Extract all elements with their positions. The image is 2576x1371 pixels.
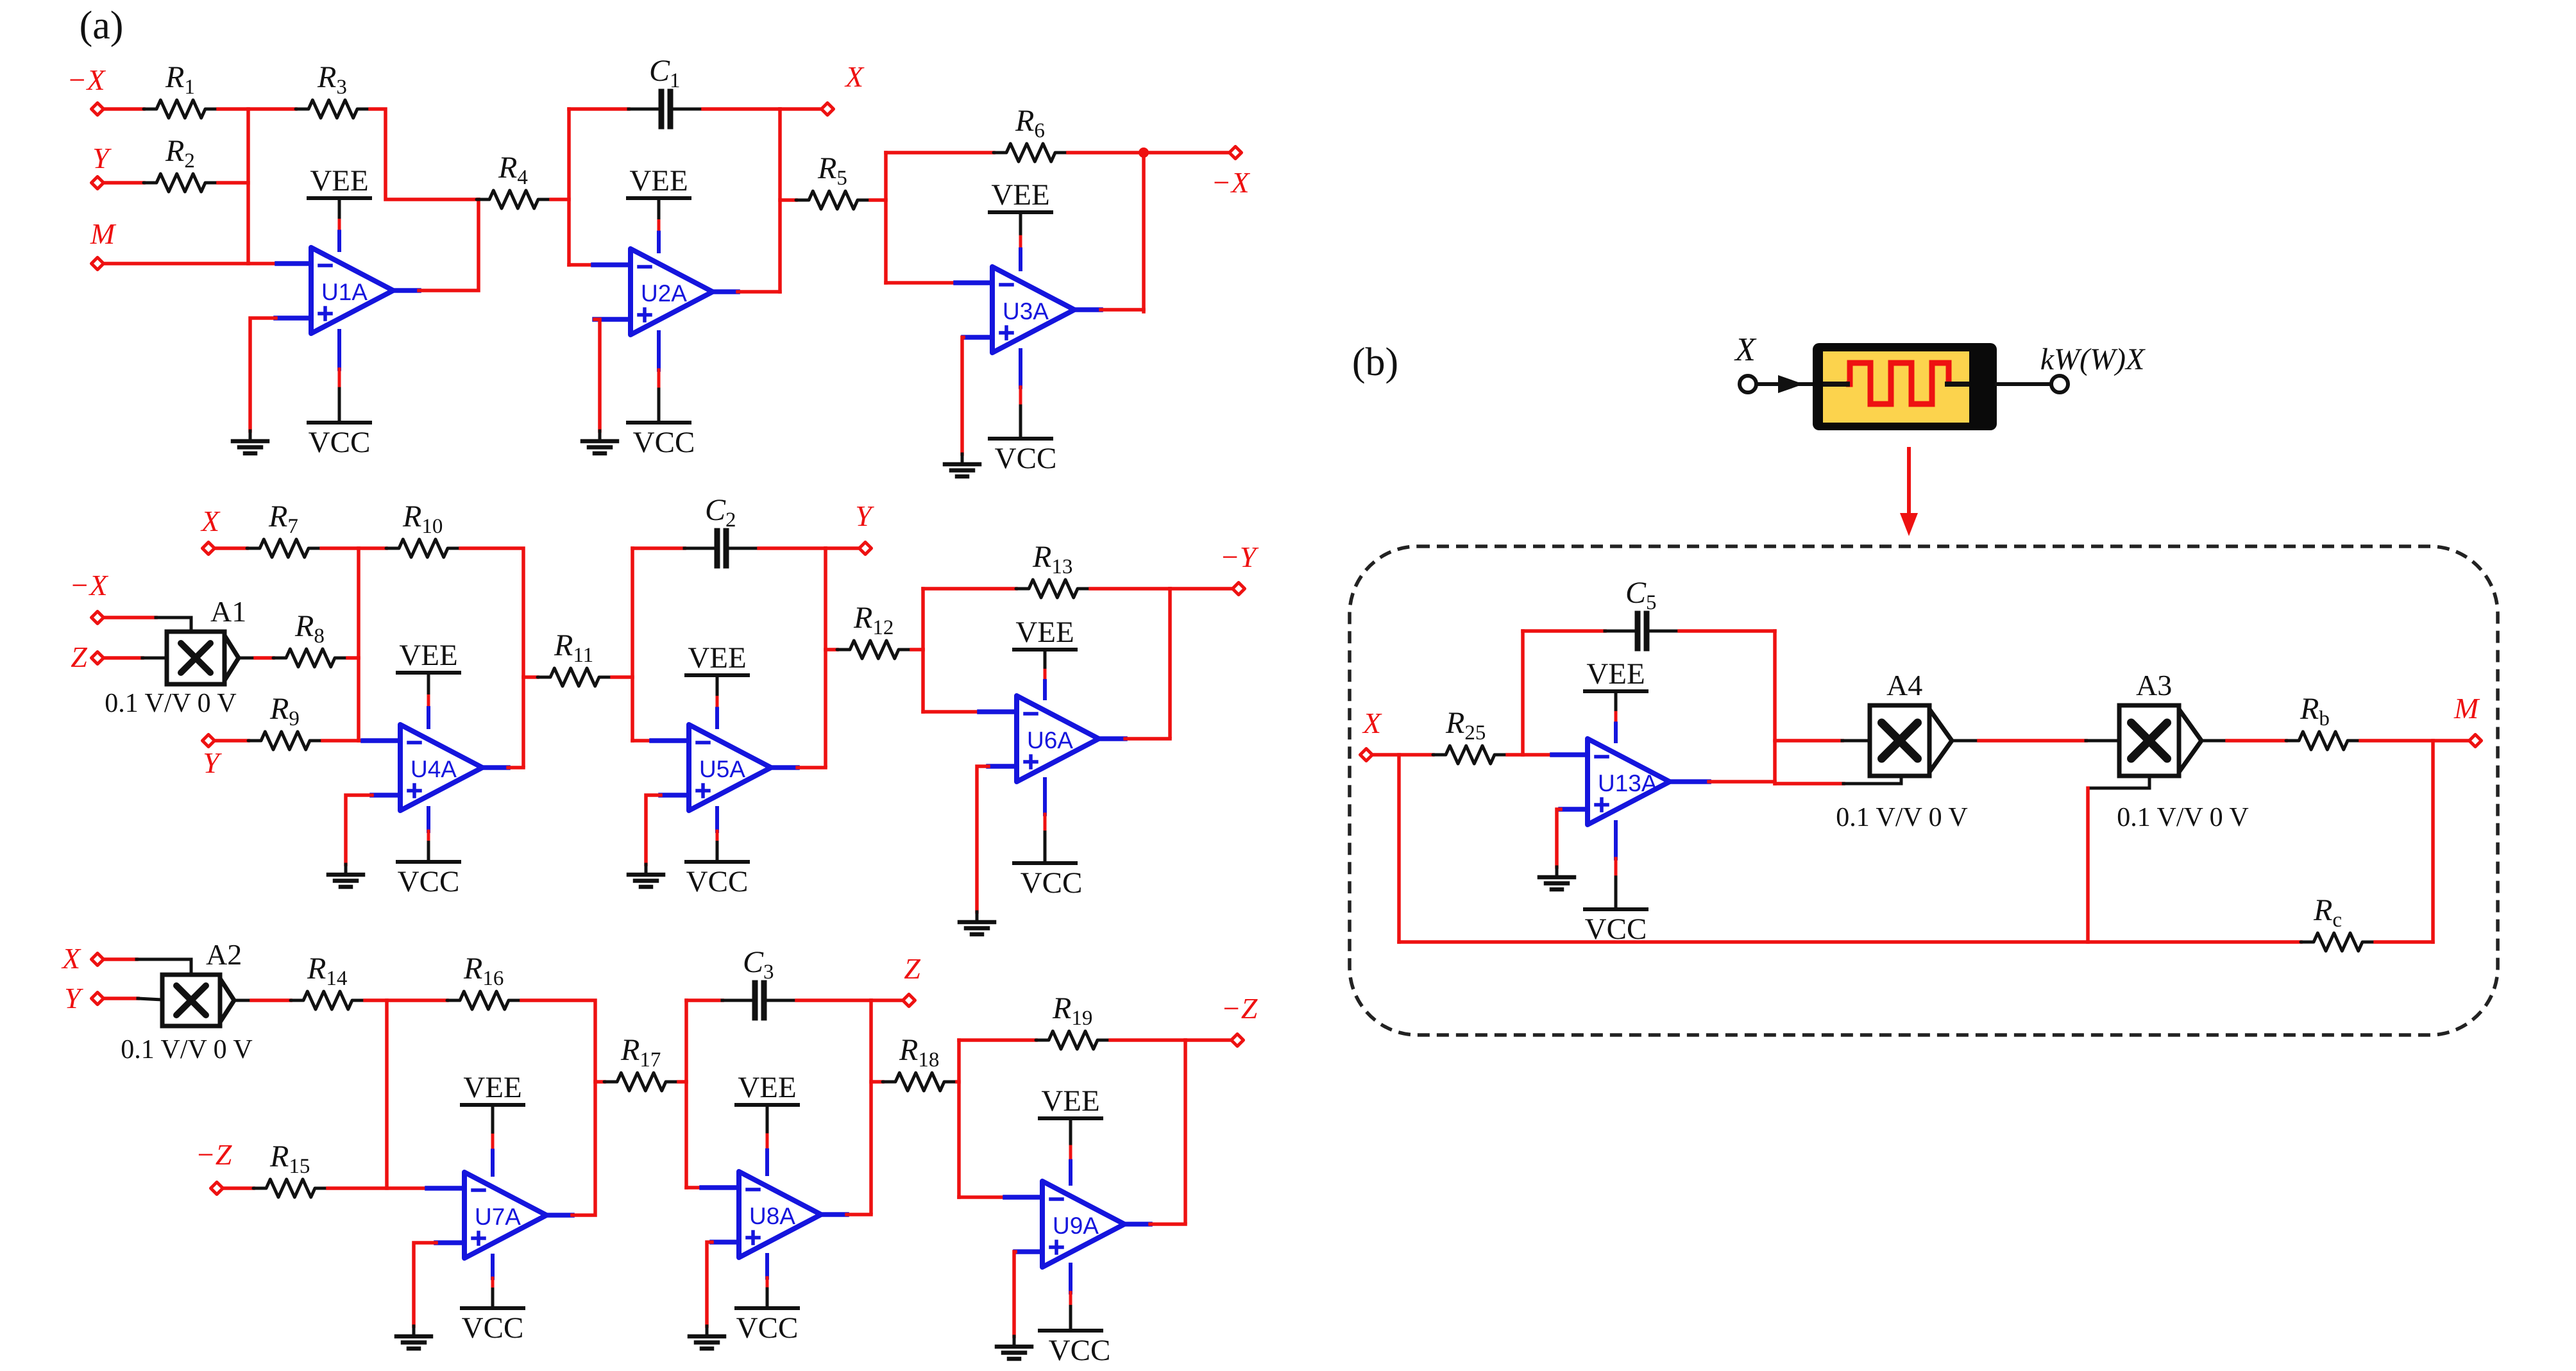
wire U1A noninverting to ground xyxy=(250,318,276,431)
wire U13A inverting stub xyxy=(1552,752,1588,757)
svg-text:VEE: VEE xyxy=(738,1071,796,1104)
power rail VCC of U5A xyxy=(686,808,749,898)
svg-text:VEE: VEE xyxy=(463,1071,521,1104)
port Y output row2 xyxy=(860,543,872,555)
power rail VCC of U1A xyxy=(309,331,371,459)
resistor R16 xyxy=(447,952,521,1009)
port M input row1 xyxy=(92,258,104,270)
wire R7 to junction row2 xyxy=(321,546,386,550)
wire A3 output to Rb xyxy=(2227,739,2286,743)
port Y input row2 xyxy=(203,735,215,747)
svg-text:U13A: U13A xyxy=(1598,770,1657,796)
wire −Y node vertical to U6A output xyxy=(1168,589,1172,737)
wire to X port xyxy=(780,107,822,111)
resistor R2 xyxy=(144,134,218,192)
wire U9A inverting stub xyxy=(1005,1195,1042,1200)
wire U5A output stub xyxy=(771,765,797,770)
wire ground stem U6A xyxy=(976,912,979,922)
svg-text:X: X xyxy=(844,60,865,93)
svg-text:VEE: VEE xyxy=(1041,1084,1099,1118)
capacitor C2 xyxy=(684,493,759,566)
svg-text:VCC: VCC xyxy=(1049,1334,1111,1367)
svg-text:VCC: VCC xyxy=(309,426,371,459)
port −Y output row2 xyxy=(1233,583,1245,595)
power rail VEE of U13A xyxy=(1585,657,1647,741)
wire Y port to R2 xyxy=(105,181,144,185)
wire −Y loop vertical up xyxy=(921,589,925,650)
wire ground stem U8A xyxy=(706,1326,709,1336)
wire U8A output to Z node xyxy=(847,1213,871,1216)
wire R11 to C2 node xyxy=(612,675,632,679)
wire U6A output stub xyxy=(1099,736,1125,741)
multiplier A2 xyxy=(162,938,242,1026)
resistor R8 xyxy=(273,609,348,667)
wire to U6A inverting xyxy=(923,710,979,714)
power rail VCC of U13A xyxy=(1585,822,1647,946)
svg-text:VCC: VCC xyxy=(686,865,749,898)
wire feedback bottom line xyxy=(1399,940,2301,944)
svg-text:VCC: VCC xyxy=(633,426,695,459)
wire U13A output stub xyxy=(1670,779,1709,784)
wire ground stem U9A xyxy=(1013,1336,1016,1347)
wire U8A noninverting stub xyxy=(712,1240,739,1245)
svg-text:VEE: VEE xyxy=(688,641,746,675)
wire C1 loop left vertical xyxy=(567,109,571,265)
wire junction to A4 lower input xyxy=(1775,782,1843,786)
wire U5A noninverting stub xyxy=(661,793,689,798)
svg-text:0.1 V/V 0 V: 0.1 V/V 0 V xyxy=(2117,803,2248,832)
wire R2 to junction xyxy=(218,181,248,185)
wire to C1 left xyxy=(569,107,629,111)
svg-text:U3A: U3A xyxy=(1003,298,1049,324)
port −X input row1 xyxy=(92,103,104,115)
resistor R25 xyxy=(1433,706,1507,764)
wire U7A output to R17 node xyxy=(572,1082,595,1215)
wire X to A2 top input xyxy=(137,959,191,975)
wire R6 to −X node xyxy=(1068,151,1144,155)
wire ground stem U5A xyxy=(645,864,648,875)
svg-text:Z: Z xyxy=(71,641,87,673)
port M output (b) xyxy=(2470,735,2482,747)
ground near U5A xyxy=(629,875,663,887)
wire to C5 xyxy=(1523,629,1605,633)
wire ground stem U4A xyxy=(344,864,348,875)
power rail VEE of U5A xyxy=(686,641,748,727)
svg-text:VCC: VCC xyxy=(995,442,1057,475)
wire ground stem U2A xyxy=(598,431,602,441)
resistor R19 xyxy=(1036,991,1110,1049)
wire Y port to R9 xyxy=(216,739,248,743)
wire Z to A1 input xyxy=(142,657,167,660)
wire U4A noninverting stub xyxy=(372,793,400,798)
wire U3A noninverting to ground xyxy=(962,337,963,454)
svg-text:kW(W)X: kW(W)X xyxy=(2040,342,2146,376)
ground near U6A xyxy=(960,922,994,934)
svg-text:VCC: VCC xyxy=(398,865,460,898)
op-amp U8A xyxy=(739,1172,821,1257)
op-amp U9A xyxy=(1042,1181,1124,1267)
wire −X node to port xyxy=(1144,151,1230,155)
wire Y port lead row3 xyxy=(105,997,138,1000)
wire C2 loop left vertical xyxy=(631,548,634,741)
wire A3 upper input stub xyxy=(2086,739,2119,743)
wire U9A output stub xyxy=(1124,1222,1150,1227)
arrow memristor to circuit xyxy=(1907,449,1911,517)
power rail VEE of U2A xyxy=(628,164,690,251)
resistor R9 xyxy=(248,692,323,750)
wire R12 to −Y loop xyxy=(911,648,923,652)
port X output row1 xyxy=(822,103,834,115)
svg-text:−Z: −Z xyxy=(1221,992,1258,1025)
wire row2 junction vertical xyxy=(357,548,360,741)
wire A2 output stub xyxy=(234,999,251,1002)
wire R5 to U3A inverting node xyxy=(870,200,886,283)
wire node to U8A inverting xyxy=(686,1186,702,1190)
resistor R14 xyxy=(291,952,365,1009)
wire Z port lead xyxy=(105,656,142,660)
wire M node vertical to Rc xyxy=(2431,741,2435,942)
wire junction to A4 upper input xyxy=(1775,739,1842,743)
wire U2A output to X node xyxy=(738,290,780,294)
svg-text:Y: Y xyxy=(203,746,222,779)
ground near U3A xyxy=(945,464,979,476)
wire U5A output to Y node xyxy=(797,766,826,770)
svg-text:−X: −X xyxy=(67,63,106,96)
resistor R3 xyxy=(296,60,370,118)
ground near U9A xyxy=(997,1347,1031,1359)
wire memristor input with arrow xyxy=(1756,382,1796,386)
wire U9A output to −Z node xyxy=(1150,1222,1185,1226)
wire R15 to U7A inverting xyxy=(328,1186,427,1190)
wire R8 to junction vertical xyxy=(348,656,359,660)
wire U7A noninverting to ground xyxy=(414,1243,436,1326)
svg-text:(b): (b) xyxy=(1352,341,1398,384)
wire node to R11 xyxy=(523,675,538,679)
ground near U2A xyxy=(582,441,617,453)
wire −X to A1 top input xyxy=(156,618,191,632)
port Z input row2 xyxy=(92,652,104,664)
resistor R5 xyxy=(796,151,870,209)
port Y input row1 xyxy=(92,177,104,189)
wire U3A output to −X node xyxy=(1101,308,1144,312)
power rail VCC of U2A xyxy=(628,332,695,459)
power rail VCC of U4A xyxy=(398,808,460,898)
wire U9A noninverting to ground xyxy=(1014,1252,1015,1336)
wire R9 to U4A inverting xyxy=(323,739,363,743)
svg-text:0.1 V/V 0 V: 0.1 V/V 0 V xyxy=(105,689,236,718)
power rail VCC of U7A xyxy=(462,1256,524,1345)
multiplier A4 xyxy=(1870,669,1952,776)
op-amp U3A xyxy=(992,267,1074,353)
wire to Y port xyxy=(826,546,860,550)
svg-text:M: M xyxy=(2453,692,2480,725)
wire U8A noninverting to ground xyxy=(707,1242,712,1326)
wire U1A noninverting stub xyxy=(276,315,311,321)
wire C3 to Z node xyxy=(797,998,871,1002)
wire R14 to R16 xyxy=(365,998,447,1002)
wire U6A noninverting to ground xyxy=(977,766,988,912)
wire to C2 xyxy=(632,546,684,550)
wire ground stem U7A xyxy=(412,1326,416,1336)
wire R10 to U4A output vertical xyxy=(461,548,523,766)
resistor R17 xyxy=(604,1033,679,1091)
svg-text:−Y: −Y xyxy=(1220,541,1259,573)
svg-text:X: X xyxy=(1734,332,1757,368)
wire R13 to −Y node xyxy=(1090,587,1170,591)
svg-text:Y: Y xyxy=(92,142,112,174)
wire R5 node up to R6 line xyxy=(884,153,888,200)
wire −Z port to R15 xyxy=(224,1186,253,1190)
ground near U13A xyxy=(1539,877,1574,889)
power rail VEE of U6A xyxy=(1014,616,1076,698)
svg-text:0.1 V/V 0 V: 0.1 V/V 0 V xyxy=(1836,803,1967,832)
svg-text:VEE: VEE xyxy=(1586,657,1645,691)
wire node to U2A inverting xyxy=(569,263,593,267)
wire U1A output to R4 node xyxy=(419,199,479,290)
dashed equivalent-circuit box xyxy=(1350,546,2498,1035)
wire U2A output stub xyxy=(713,289,738,294)
svg-text:A4: A4 xyxy=(1886,669,1922,702)
wire −X port to R1 xyxy=(105,107,144,111)
resistor Rb xyxy=(2286,692,2360,750)
wire −Y node to port xyxy=(1170,587,1233,591)
op-amp U2A xyxy=(631,249,713,335)
resistor Rc xyxy=(2301,893,2375,951)
wire R1 to R3 (junction node) xyxy=(218,107,296,111)
svg-text:VCC: VCC xyxy=(462,1311,524,1345)
wire Y node to R12 xyxy=(826,648,837,652)
wire U2A noninverting stub xyxy=(595,317,631,322)
wire A4 output to A3 xyxy=(1979,739,2086,743)
wire junction vertical to U1A inverting input xyxy=(246,109,250,264)
wire U13A noninverting stub xyxy=(1561,807,1588,812)
wire to U9A inverting xyxy=(959,1195,1005,1199)
power rail VCC of U3A xyxy=(990,350,1056,475)
wire R18 to −Z loop xyxy=(957,1080,959,1084)
wire U1A output stub xyxy=(393,288,419,293)
capacitor C1 xyxy=(629,54,703,126)
svg-text:U8A: U8A xyxy=(749,1203,795,1229)
wire U1A inverting stub xyxy=(277,261,311,266)
capacitor C5 xyxy=(1605,576,1679,648)
wire −Z node to port xyxy=(1185,1038,1232,1042)
resistor R7 xyxy=(247,500,321,557)
wire U4A noninverting to ground xyxy=(346,795,372,864)
power rail VEE of U7A xyxy=(462,1071,523,1175)
wire X node down to feedback line xyxy=(1397,755,1401,942)
terminal X memristor xyxy=(1740,376,1756,392)
svg-text:Y: Y xyxy=(855,500,874,532)
resistor R6 xyxy=(994,104,1068,162)
resistor R13 xyxy=(1016,540,1090,598)
resistor R11 xyxy=(538,628,612,686)
resistor R1 xyxy=(144,60,218,118)
power rail VCC of U8A xyxy=(736,1255,799,1345)
op-amp U6A xyxy=(1017,696,1099,782)
wire memristor output xyxy=(1997,382,2051,386)
resistor R4 xyxy=(477,151,551,208)
port X input row3 xyxy=(92,954,104,966)
svg-text:U9A: U9A xyxy=(1053,1213,1099,1239)
wire U4A output stub xyxy=(482,765,508,770)
wire ground stem U13A xyxy=(1555,867,1559,877)
wire Rb to M port xyxy=(2360,739,2470,743)
wire −X port lead xyxy=(105,616,156,619)
wire C5 loop left vertical xyxy=(1521,631,1525,755)
port Z output row3 xyxy=(903,995,915,1007)
wire A3 lower input bend xyxy=(2088,776,2149,788)
wire −X node vertical to U3A output xyxy=(1142,153,1146,312)
svg-text:U5A: U5A xyxy=(699,756,745,782)
power rail VEE of U8A xyxy=(736,1071,798,1174)
multiplier A1 xyxy=(167,595,246,684)
memristor zigzag element xyxy=(1846,363,1949,404)
wire R6 feedback left xyxy=(886,151,994,155)
memristor internal lead left xyxy=(1826,382,1847,387)
wire R16 to R17 xyxy=(521,1000,604,1082)
wire to C3 xyxy=(686,998,722,1002)
svg-text:−X: −X xyxy=(69,569,108,601)
wire A1 output to R8 xyxy=(255,656,273,660)
svg-text:U2A: U2A xyxy=(641,280,687,307)
wire R3 to R4 xyxy=(370,109,479,199)
junction dot −X node xyxy=(1139,147,1149,158)
svg-text:X: X xyxy=(1362,707,1382,739)
wire Y node vertical to U5A output xyxy=(824,548,827,766)
wire X port lead row3 xyxy=(105,957,137,961)
wire R4 to U2A input node xyxy=(551,198,569,201)
wire to Z port xyxy=(871,998,903,1002)
wire U4A output to vertical xyxy=(508,766,523,770)
wire −Y loop vertical down xyxy=(921,650,925,712)
wire A3 output stub xyxy=(2200,739,2227,743)
memristor body xyxy=(1813,343,1997,430)
wire X port to R7 xyxy=(216,546,247,550)
terminal kW(W)X memristor xyxy=(2051,376,2068,392)
wire R25 to U13A inverting xyxy=(1507,753,1552,757)
wire A3 lower input vertical to feedback line xyxy=(2086,788,2090,942)
wire A4 lower input bend xyxy=(1843,776,1901,784)
port −X output row1 xyxy=(1230,147,1242,159)
op-amp U1A xyxy=(311,248,393,333)
wire node to U5A inverting xyxy=(632,739,652,743)
wire R19 feedback left xyxy=(959,1038,1036,1042)
port X input row2 xyxy=(203,543,215,555)
power rail VCC of U6A xyxy=(1014,779,1082,900)
power rail VCC of U9A xyxy=(1040,1265,1110,1367)
svg-text:VEE: VEE xyxy=(991,178,1049,212)
svg-text:A1: A1 xyxy=(210,595,246,628)
resistor R18 xyxy=(883,1033,957,1091)
memristor internal lead right xyxy=(1947,382,1967,387)
wire Z node to R18 xyxy=(871,1080,883,1084)
svg-text:X: X xyxy=(200,505,221,537)
wire C5 to output vertical xyxy=(1679,629,1775,633)
wire U13A output to junction xyxy=(1709,780,1775,784)
wire X node vertical to U2A output xyxy=(778,109,782,292)
wire ground stem U3A xyxy=(961,454,964,464)
resistor R12 xyxy=(837,601,911,659)
wire U3A inverting stub xyxy=(956,280,992,285)
svg-text:U7A: U7A xyxy=(475,1204,521,1230)
svg-text:U4A: U4A xyxy=(411,756,457,782)
power rail VEE of U1A xyxy=(309,164,370,250)
wire U7A inverting stub xyxy=(427,1186,464,1191)
svg-text:U6A: U6A xyxy=(1027,727,1073,753)
wire U6A noninverting stub xyxy=(988,764,1017,769)
wire U8A inverting stub xyxy=(702,1185,739,1190)
port −Z input row3 xyxy=(211,1182,223,1195)
wire Y to A2 input xyxy=(138,998,162,1000)
wire U7A output stub xyxy=(547,1213,572,1218)
svg-text:U1A: U1A xyxy=(321,279,368,305)
port −X input row2 xyxy=(92,612,104,624)
svg-text:VEE: VEE xyxy=(399,639,457,672)
wire ground stem U1A xyxy=(249,431,252,441)
wire U2A noninverting to ground xyxy=(595,319,600,431)
svg-text:0.1 V/V 0 V: 0.1 V/V 0 V xyxy=(121,1035,252,1064)
ground near U7A xyxy=(396,1336,431,1349)
svg-text:VEE: VEE xyxy=(310,164,368,198)
svg-text:VEE: VEE xyxy=(1015,616,1074,649)
wire X port to R25 xyxy=(1373,753,1433,757)
wire U7A noninverting stub xyxy=(436,1240,464,1245)
resistor R15 xyxy=(253,1140,328,1197)
wire U4A inverting stub xyxy=(363,738,400,743)
svg-text:VCC: VCC xyxy=(1021,866,1083,900)
svg-text:−X: −X xyxy=(1211,166,1250,199)
wire U5A noninverting to ground xyxy=(646,795,661,864)
resistor R10 xyxy=(386,500,461,557)
svg-text:A3: A3 xyxy=(2136,669,2172,702)
svg-text:Y: Y xyxy=(64,982,83,1014)
ground near U4A xyxy=(328,875,363,887)
op-amp U5A xyxy=(689,725,771,811)
power rail VEE of U9A xyxy=(1040,1084,1101,1184)
wire Rc to M vertical xyxy=(2375,940,2433,944)
op-amp U4A xyxy=(400,725,482,811)
wire A4 upper input stub xyxy=(1842,739,1870,743)
wire U3A output stub xyxy=(1074,307,1101,312)
wire U6A output to −Y node xyxy=(1125,737,1170,741)
wire Z node vertical to U8A output xyxy=(869,1000,873,1213)
capacitor C3 xyxy=(722,945,797,1018)
wire C5 right vertical to U13A output xyxy=(1773,631,1777,784)
port Y input row3 xyxy=(92,993,104,1005)
wire −Z loop vertical xyxy=(957,1040,961,1197)
svg-text:(a): (a) xyxy=(80,4,124,47)
port X input (b) xyxy=(1360,749,1373,761)
wire R19 to −Z node xyxy=(1110,1038,1185,1042)
wire A1 output stub xyxy=(239,657,255,660)
wire R17 to C3 node xyxy=(679,1080,686,1084)
wire C2 to Y node xyxy=(759,546,826,550)
wire U6A inverting stub xyxy=(979,709,1017,714)
wire U3A noninverting stub xyxy=(963,335,992,340)
wire A2 output to R14 xyxy=(251,998,291,1002)
wire row3 junction vertical xyxy=(385,1000,389,1188)
wire −Z node vertical to U9A output xyxy=(1183,1040,1187,1222)
wire X node to R5 xyxy=(780,198,796,202)
svg-text:Z: Z xyxy=(904,952,920,985)
op-amp U7A xyxy=(464,1172,547,1258)
wire to U3A inverting xyxy=(886,281,956,285)
wire M port to U1A inverting input xyxy=(105,262,277,265)
wire U2A inverting stub xyxy=(593,262,631,267)
wire U5A inverting stub xyxy=(652,738,689,743)
svg-text:A2: A2 xyxy=(206,938,242,971)
port −Z output row3 xyxy=(1232,1034,1244,1047)
